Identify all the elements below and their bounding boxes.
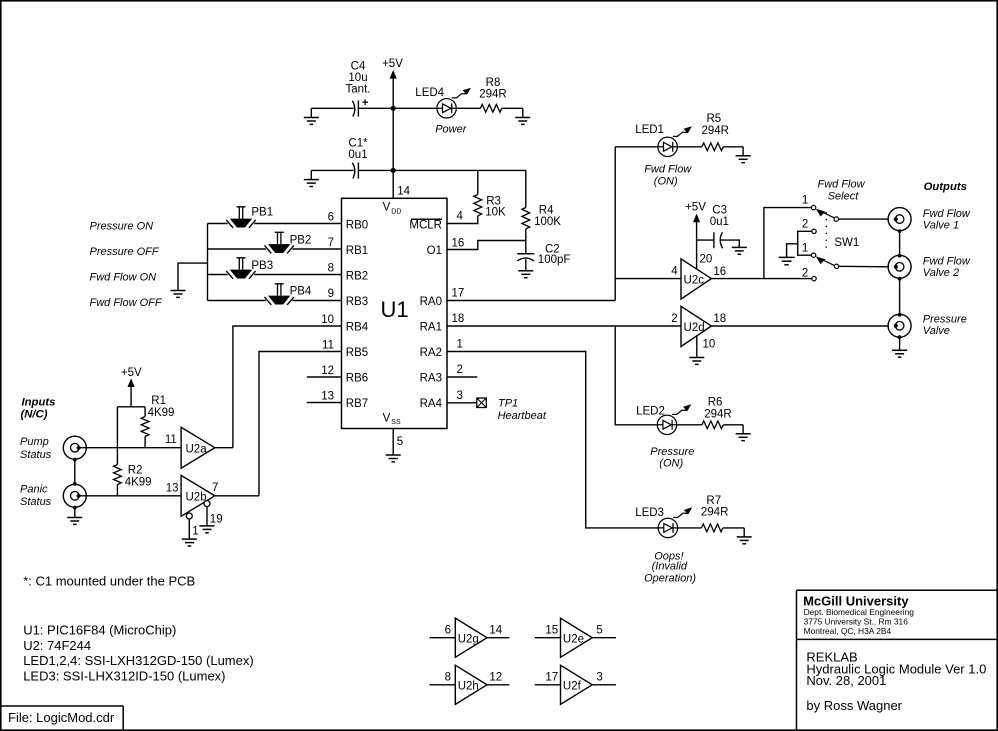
label Fwd Flow (ON) xyxy=(644,163,692,187)
connector Pressure Valve xyxy=(888,314,911,337)
svg-text:LED4: LED4 xyxy=(415,87,444,99)
wire rail right to R3/R4 xyxy=(393,170,526,207)
resistor R8 xyxy=(479,77,507,112)
wire riser to U2c input xyxy=(615,278,681,280)
LED3 xyxy=(635,507,692,538)
wire SW1 common 1 to Fwd Flow Valve 1 xyxy=(839,218,889,220)
svg-text:4: 4 xyxy=(671,266,678,278)
switch SW1 xyxy=(802,194,859,280)
wire panic connector to ground xyxy=(74,507,76,517)
svg-text:8: 8 xyxy=(328,263,334,275)
svg-text:10u: 10u xyxy=(348,72,367,84)
svg-text:U2g: U2g xyxy=(458,634,479,646)
wire RB7 stub pin 13 xyxy=(307,402,342,404)
wire R3 bottom to MCLR pin 4 xyxy=(447,216,478,224)
wire C4 right lead to +5V node xyxy=(358,107,393,109)
node dot valve1 bottom xyxy=(898,229,902,233)
wire LED1 to R5 xyxy=(677,146,702,148)
wire RA0 pin 17 to riser xyxy=(447,300,615,302)
svg-text:4: 4 xyxy=(457,211,464,223)
ground (inputs) xyxy=(67,518,82,525)
wire C2 to ground xyxy=(525,259,527,271)
svg-text:RA0: RA0 xyxy=(420,296,442,308)
+5V power symbol (U2 Vcc) xyxy=(685,201,706,269)
ground (C4) xyxy=(304,108,319,124)
svg-text:LED3: SSI-LHX312ID-150 (Lumex): LED3: SSI-LHX312ID-150 (Lumex) xyxy=(23,668,225,683)
node junction at +5V / LED4 / C4 xyxy=(391,106,396,111)
svg-text:LED1: LED1 xyxy=(635,124,664,136)
svg-text:RB2: RB2 xyxy=(346,270,368,282)
wire shell link valve1-valve2 xyxy=(899,231,901,256)
ground (R6) xyxy=(736,425,751,441)
svg-text:294R: 294R xyxy=(704,408,732,420)
svg-text:11: 11 xyxy=(165,434,177,446)
svg-text:14: 14 xyxy=(397,186,410,198)
resistor R5 xyxy=(702,113,730,151)
wire riser to LED1 xyxy=(615,146,658,148)
pushbutton PB4 xyxy=(265,284,312,305)
svg-text:0u1: 0u1 xyxy=(348,149,367,161)
buffer U2c xyxy=(681,259,711,299)
svg-text:R6: R6 xyxy=(708,396,723,408)
svg-text:(N/C): (N/C) xyxy=(21,409,48,421)
svg-text:2: 2 xyxy=(802,219,808,231)
wire valve3 shell to ground xyxy=(899,337,901,350)
svg-text:C3: C3 xyxy=(712,204,727,216)
node dot valve2 bottom xyxy=(898,277,902,281)
node dot pump bottom xyxy=(73,458,77,462)
pushbutton PB2 xyxy=(265,232,312,253)
svg-text:V: V xyxy=(383,413,391,425)
svg-text:R8: R8 xyxy=(486,77,501,89)
buffer U2d xyxy=(681,306,711,346)
svg-text:9: 9 xyxy=(328,288,334,300)
enable bubble pin 1 of U2b xyxy=(186,513,198,539)
svg-text:RB7: RB7 xyxy=(346,398,368,410)
ground (SW1) xyxy=(779,257,795,264)
wire RB3 row (bus to PB4, PB4 to pin 9) xyxy=(208,300,342,302)
svg-text:RB1: RB1 xyxy=(346,245,368,257)
wire LED4 to R8 xyxy=(456,107,480,109)
buffer U2a xyxy=(181,427,215,468)
resistor R2 xyxy=(114,407,152,496)
svg-text:3: 3 xyxy=(457,390,463,402)
wire SW1 common 2 to Fwd Flow Valve 2 xyxy=(839,265,888,268)
capacitor C2 xyxy=(517,243,570,266)
wire U2c output to SW1 xyxy=(711,208,811,279)
svg-text:6: 6 xyxy=(445,624,451,636)
ground (R8) xyxy=(515,108,530,124)
resistor R1 xyxy=(141,395,174,448)
svg-text:20: 20 xyxy=(700,254,713,266)
ground (output shells) xyxy=(892,350,907,357)
svg-text:RA3: RA3 xyxy=(420,372,442,384)
svg-text:V: V xyxy=(383,202,391,214)
ground (U2b pin 1) xyxy=(182,539,197,546)
svg-text:+5V: +5V xyxy=(685,201,706,213)
+5V power symbol (inputs) xyxy=(121,367,142,407)
svg-text:(ON): (ON) xyxy=(659,458,683,470)
svg-text:4K99: 4K99 xyxy=(148,407,175,419)
note parts list xyxy=(23,623,254,684)
svg-text:File: LogicMod.cdr: File: LogicMod.cdr xyxy=(8,710,115,725)
svg-text:Select: Select xyxy=(828,191,860,203)
wire RB2 row (bus to PB3, PB3 to pin 8) xyxy=(208,274,342,276)
svg-text:2: 2 xyxy=(457,364,463,376)
svg-text:Fwd Flow OFF: Fwd Flow OFF xyxy=(90,297,163,309)
svg-text:+5V: +5V xyxy=(121,367,142,379)
svg-text:(ON): (ON) xyxy=(654,175,678,187)
svg-text:16: 16 xyxy=(713,266,726,278)
svg-text:R4: R4 xyxy=(539,205,554,217)
wire RA3 stub pin 2 xyxy=(447,376,477,378)
svg-text:1: 1 xyxy=(457,339,463,351)
resistor R3 xyxy=(474,195,506,219)
wire LED2 drop from RA1 line xyxy=(615,326,657,425)
svg-text:C1*: C1* xyxy=(348,137,368,149)
ground (U2b pin 19) xyxy=(200,526,215,533)
svg-text:11: 11 xyxy=(322,339,334,351)
svg-text:U2: 74F244: U2: 74F244 xyxy=(23,638,91,653)
svg-text:2: 2 xyxy=(671,313,677,325)
label Fwd Flow Valve 1 xyxy=(923,208,971,232)
wire U2b output xyxy=(215,495,259,497)
svg-text:R7: R7 xyxy=(706,495,721,507)
connector Fwd Flow Valve 2 xyxy=(888,255,911,278)
enable bubble pin 19 of U2b xyxy=(204,501,223,526)
svg-text:Tant.: Tant. xyxy=(346,84,371,96)
capacitor C1 xyxy=(348,137,368,178)
wire U1 Vss pin 5 to ground xyxy=(392,429,394,456)
wire LED3 to R7 xyxy=(677,527,701,529)
svg-text:U2d: U2d xyxy=(684,322,705,334)
svg-text:18: 18 xyxy=(452,313,465,325)
wire RB6 stub pin 12 xyxy=(307,376,342,378)
svg-text:U2f: U2f xyxy=(563,681,582,693)
svg-text:0u1: 0u1 xyxy=(710,216,729,228)
wire rail drop to R3 xyxy=(477,170,479,194)
svg-text:SW1: SW1 xyxy=(834,237,859,249)
wire Panic Status to U2b input xyxy=(79,495,182,497)
svg-text:2: 2 xyxy=(802,268,808,280)
label Pressure Valve xyxy=(923,313,967,337)
svg-text:Outputs: Outputs xyxy=(924,181,967,193)
buffer U2g (spare) xyxy=(430,618,510,657)
svg-text:McGill University: McGill University xyxy=(803,593,909,608)
LED2 xyxy=(636,404,691,434)
svg-text:1: 1 xyxy=(802,242,808,254)
svg-text:MCLR: MCLR xyxy=(409,219,442,231)
svg-text:R2: R2 xyxy=(128,465,143,477)
ground (U2d pin 10) xyxy=(689,358,704,365)
wire left bus vertical xyxy=(207,224,209,301)
svg-text:13: 13 xyxy=(166,482,179,494)
svg-text:16: 16 xyxy=(452,238,465,250)
svg-text:LED2: LED2 xyxy=(636,406,665,418)
resistor R4 xyxy=(522,205,561,229)
svg-text:Valve 2: Valve 2 xyxy=(923,267,959,279)
label Inputs (N/C) xyxy=(21,397,56,421)
svg-text:5: 5 xyxy=(596,624,602,636)
svg-text:17: 17 xyxy=(545,672,558,684)
svg-text:Panic: Panic xyxy=(20,483,48,495)
svg-text:12: 12 xyxy=(489,672,502,684)
svg-text:Fwd Flow: Fwd Flow xyxy=(923,255,971,267)
capacitor C4 xyxy=(346,61,371,117)
capacitor C3 xyxy=(710,204,729,248)
wire R7 to ground xyxy=(723,527,744,529)
svg-text:Nov. 28, 2001: Nov. 28, 2001 xyxy=(806,673,886,688)
file name box xyxy=(2,706,124,730)
svg-text:1: 1 xyxy=(802,194,808,206)
wire RB0 row (bus to PB1, PB1 to pin 6) xyxy=(208,223,342,225)
ground (C2) xyxy=(518,271,533,278)
wire LED1/U2c riser xyxy=(614,147,616,301)
svg-text:LED3: LED3 xyxy=(635,507,664,519)
label Pressure (ON) xyxy=(650,446,694,470)
svg-text:RB4: RB4 xyxy=(346,321,369,333)
node junction at C1 rail xyxy=(391,168,396,173)
svg-text:RA1: RA1 xyxy=(420,321,442,333)
wire U2d output to Pressure Valve xyxy=(711,325,888,327)
svg-text:294R: 294R xyxy=(702,125,730,137)
svg-text:U1: PIC16F84 (MicroChip): U1: PIC16F84 (MicroChip) xyxy=(23,623,176,638)
svg-text:19: 19 xyxy=(210,513,223,525)
svg-text:TP1: TP1 xyxy=(498,397,518,409)
svg-text:12: 12 xyxy=(321,365,334,377)
svg-text:RB5: RB5 xyxy=(346,347,368,359)
svg-text:RB0: RB0 xyxy=(346,219,368,231)
wire +5V rail down to U1 Vdd xyxy=(392,108,394,198)
wire C4 left lead to ground xyxy=(311,107,353,109)
svg-text:O1: O1 xyxy=(427,245,442,257)
svg-text:10: 10 xyxy=(703,339,716,351)
svg-text:SS: SS xyxy=(391,419,401,426)
ground (C3) xyxy=(732,247,747,254)
wire Pump Status to U2a input xyxy=(79,447,182,449)
wire +5V node to LED4 xyxy=(393,107,437,109)
connector Pump Status xyxy=(63,436,86,459)
buffer U2h (spare) xyxy=(430,665,510,704)
svg-text:Pressure: Pressure xyxy=(650,446,694,458)
connector Fwd Flow Valve 1 xyxy=(888,208,911,231)
wire R5 to ground xyxy=(723,146,743,148)
svg-text:Operation): Operation) xyxy=(644,572,696,584)
pushbutton PB3 xyxy=(226,258,273,279)
resistor R6 xyxy=(702,396,732,428)
svg-text:4K99: 4K99 xyxy=(125,477,152,489)
buffer U2b xyxy=(181,475,215,516)
wire RA1 pin 18 to U2d input xyxy=(447,325,681,327)
resistor R7 xyxy=(701,495,729,532)
svg-text:294R: 294R xyxy=(701,507,729,519)
svg-text:Status: Status xyxy=(20,449,52,461)
svg-text:1: 1 xyxy=(192,526,198,538)
svg-text:5: 5 xyxy=(397,436,403,448)
svg-text:LED1,2,4: SSI-LXH312GD-150 (Lu: LED1,2,4: SSI-LXH312GD-150 (Lumex) xyxy=(23,653,254,668)
svg-text:Pressure: Pressure xyxy=(923,313,967,325)
svg-text:+5V: +5V xyxy=(382,58,403,70)
wire C3 to ground xyxy=(720,240,739,247)
svg-text:Fwd Flow: Fwd Flow xyxy=(644,163,692,175)
wire RB4 pin 10 to U2a output riser xyxy=(233,326,342,448)
wire +5V tee bar to R1/R2 xyxy=(117,406,145,408)
svg-text:10: 10 xyxy=(321,314,334,326)
svg-text:RB6: RB6 xyxy=(346,372,368,384)
svg-text:U2c: U2c xyxy=(684,274,705,286)
svg-text:(Invalid: (Invalid xyxy=(652,561,688,573)
svg-text:Montreal, QC, H3A 2B4: Montreal, QC, H3A 2B4 xyxy=(804,626,892,636)
svg-text:PB3: PB3 xyxy=(251,260,273,272)
wire C1 left lead to ground xyxy=(311,169,353,171)
LED4 xyxy=(415,87,471,118)
svg-text:*: C1 mounted under the PCB: *: C1 mounted under the PCB xyxy=(23,574,195,589)
svg-text:Dept. Biomedical Engineering: Dept. Biomedical Engineering xyxy=(804,607,915,617)
svg-text:RB3: RB3 xyxy=(346,296,368,308)
svg-text:100K: 100K xyxy=(534,216,561,228)
wire RB5 pin 11 to U2b output riser xyxy=(259,352,342,496)
svg-text:Pressure OFF: Pressure OFF xyxy=(90,246,160,258)
svg-text:17: 17 xyxy=(452,288,465,300)
wire RA4 pin 3 to TP1 xyxy=(447,402,477,404)
node dot valve3 bottom xyxy=(898,335,902,339)
svg-text:R1: R1 xyxy=(151,395,166,407)
label Panic Status xyxy=(20,483,52,508)
svg-text:Inputs: Inputs xyxy=(22,397,56,409)
svg-text:13: 13 xyxy=(321,390,334,402)
LED1 xyxy=(635,124,692,156)
wire bracket to ground xyxy=(787,244,798,258)
wire shell link valve2-valve3 xyxy=(899,278,901,314)
node dot valve2 top xyxy=(898,254,902,258)
svg-text:Valve: Valve xyxy=(923,325,950,337)
svg-text:7: 7 xyxy=(212,482,218,494)
label Oops! (Invalid Operation) xyxy=(644,550,696,584)
wire LED2 to R6 xyxy=(677,424,702,426)
svg-text:3: 3 xyxy=(596,672,602,684)
wire +5V branch to C3 xyxy=(697,239,714,241)
svg-text:18: 18 xyxy=(713,313,726,325)
label Fwd Flow Valve 2 xyxy=(923,255,971,279)
wire R6 to ground xyxy=(723,424,743,426)
svg-text:PB4: PB4 xyxy=(290,285,312,297)
connector Panic Status xyxy=(63,484,86,507)
ground (R7) xyxy=(737,528,752,544)
ground (pushbutton bus) xyxy=(171,291,186,298)
svg-text:7: 7 xyxy=(328,237,334,249)
label Fwd Flow Select xyxy=(817,179,865,203)
buffer U2f (spare) xyxy=(535,665,616,704)
wire link between input connectors xyxy=(74,459,76,484)
ground (R5) xyxy=(736,147,751,163)
svg-text:Fwd Flow: Fwd Flow xyxy=(923,208,971,220)
title block xyxy=(797,590,997,730)
svg-text:Status: Status xyxy=(20,496,52,508)
svg-text:C4: C4 xyxy=(351,61,366,73)
svg-text:U2b: U2b xyxy=(186,492,207,504)
svg-text:R5: R5 xyxy=(707,113,722,125)
svg-text:Power: Power xyxy=(435,124,468,136)
node dot valve3 top xyxy=(898,313,902,317)
svg-text:U2a: U2a xyxy=(186,444,208,456)
+5V power symbol (top) xyxy=(382,58,403,108)
svg-text:6: 6 xyxy=(328,212,334,224)
node dot panic bottom xyxy=(73,506,77,510)
wire C1 right lead to rail xyxy=(358,169,393,171)
svg-text:U1: U1 xyxy=(380,297,408,322)
wire bus stub to ground xyxy=(178,263,208,290)
pushbutton PB1 xyxy=(226,206,273,228)
wire RA2 pin 1 to LED3 xyxy=(447,352,658,528)
svg-text:100pF: 100pF xyxy=(538,254,571,266)
wire U2a output xyxy=(215,447,233,449)
test point TP1 xyxy=(477,397,547,422)
svg-text:294R: 294R xyxy=(479,88,507,100)
svg-text:8: 8 xyxy=(445,672,451,684)
svg-text:14: 14 xyxy=(489,624,502,636)
svg-text:Valve 1: Valve 1 xyxy=(923,220,959,232)
svg-text:RA4: RA4 xyxy=(420,398,443,410)
svg-text:PB2: PB2 xyxy=(290,234,312,246)
wire U2d ground pin xyxy=(696,336,698,357)
ground (C1) xyxy=(304,170,319,186)
label Pump Status xyxy=(20,436,52,461)
svg-text:15: 15 xyxy=(545,624,558,636)
svg-text:10K: 10K xyxy=(485,207,506,219)
wire RB1 row (bus to PB2, PB2 to pin 7) xyxy=(208,248,342,250)
node dot panic top xyxy=(73,482,77,486)
svg-text:RA2: RA2 xyxy=(420,347,442,359)
svg-text:Pressure ON: Pressure ON xyxy=(90,220,154,232)
wire U2c output to SW1 lower terminal 2 xyxy=(764,278,812,280)
wire R8 to ground xyxy=(502,107,523,109)
svg-text:U2h: U2h xyxy=(458,681,479,693)
wire R4 bottom lead xyxy=(525,229,527,254)
svg-text:U2e: U2e xyxy=(563,634,584,646)
svg-text:by Ross Wagner: by Ross Wagner xyxy=(806,698,902,713)
svg-text:Heartbeat: Heartbeat xyxy=(498,410,547,422)
svg-text:Pump: Pump xyxy=(20,436,49,448)
svg-text:DD: DD xyxy=(391,208,401,215)
svg-text:PB1: PB1 xyxy=(251,206,273,218)
ground (U1 Vss) xyxy=(386,455,401,462)
buffer U2e (spare) xyxy=(535,618,616,657)
svg-text:Fwd Flow: Fwd Flow xyxy=(817,179,865,191)
wire O1 pin 16 to R4/C2 node xyxy=(447,241,526,250)
svg-text:Fwd Flow ON: Fwd Flow ON xyxy=(90,272,157,284)
IC U1 PIC16F84 xyxy=(342,198,448,428)
wire SW1 top terminal 2 to ground bracket xyxy=(798,231,812,255)
